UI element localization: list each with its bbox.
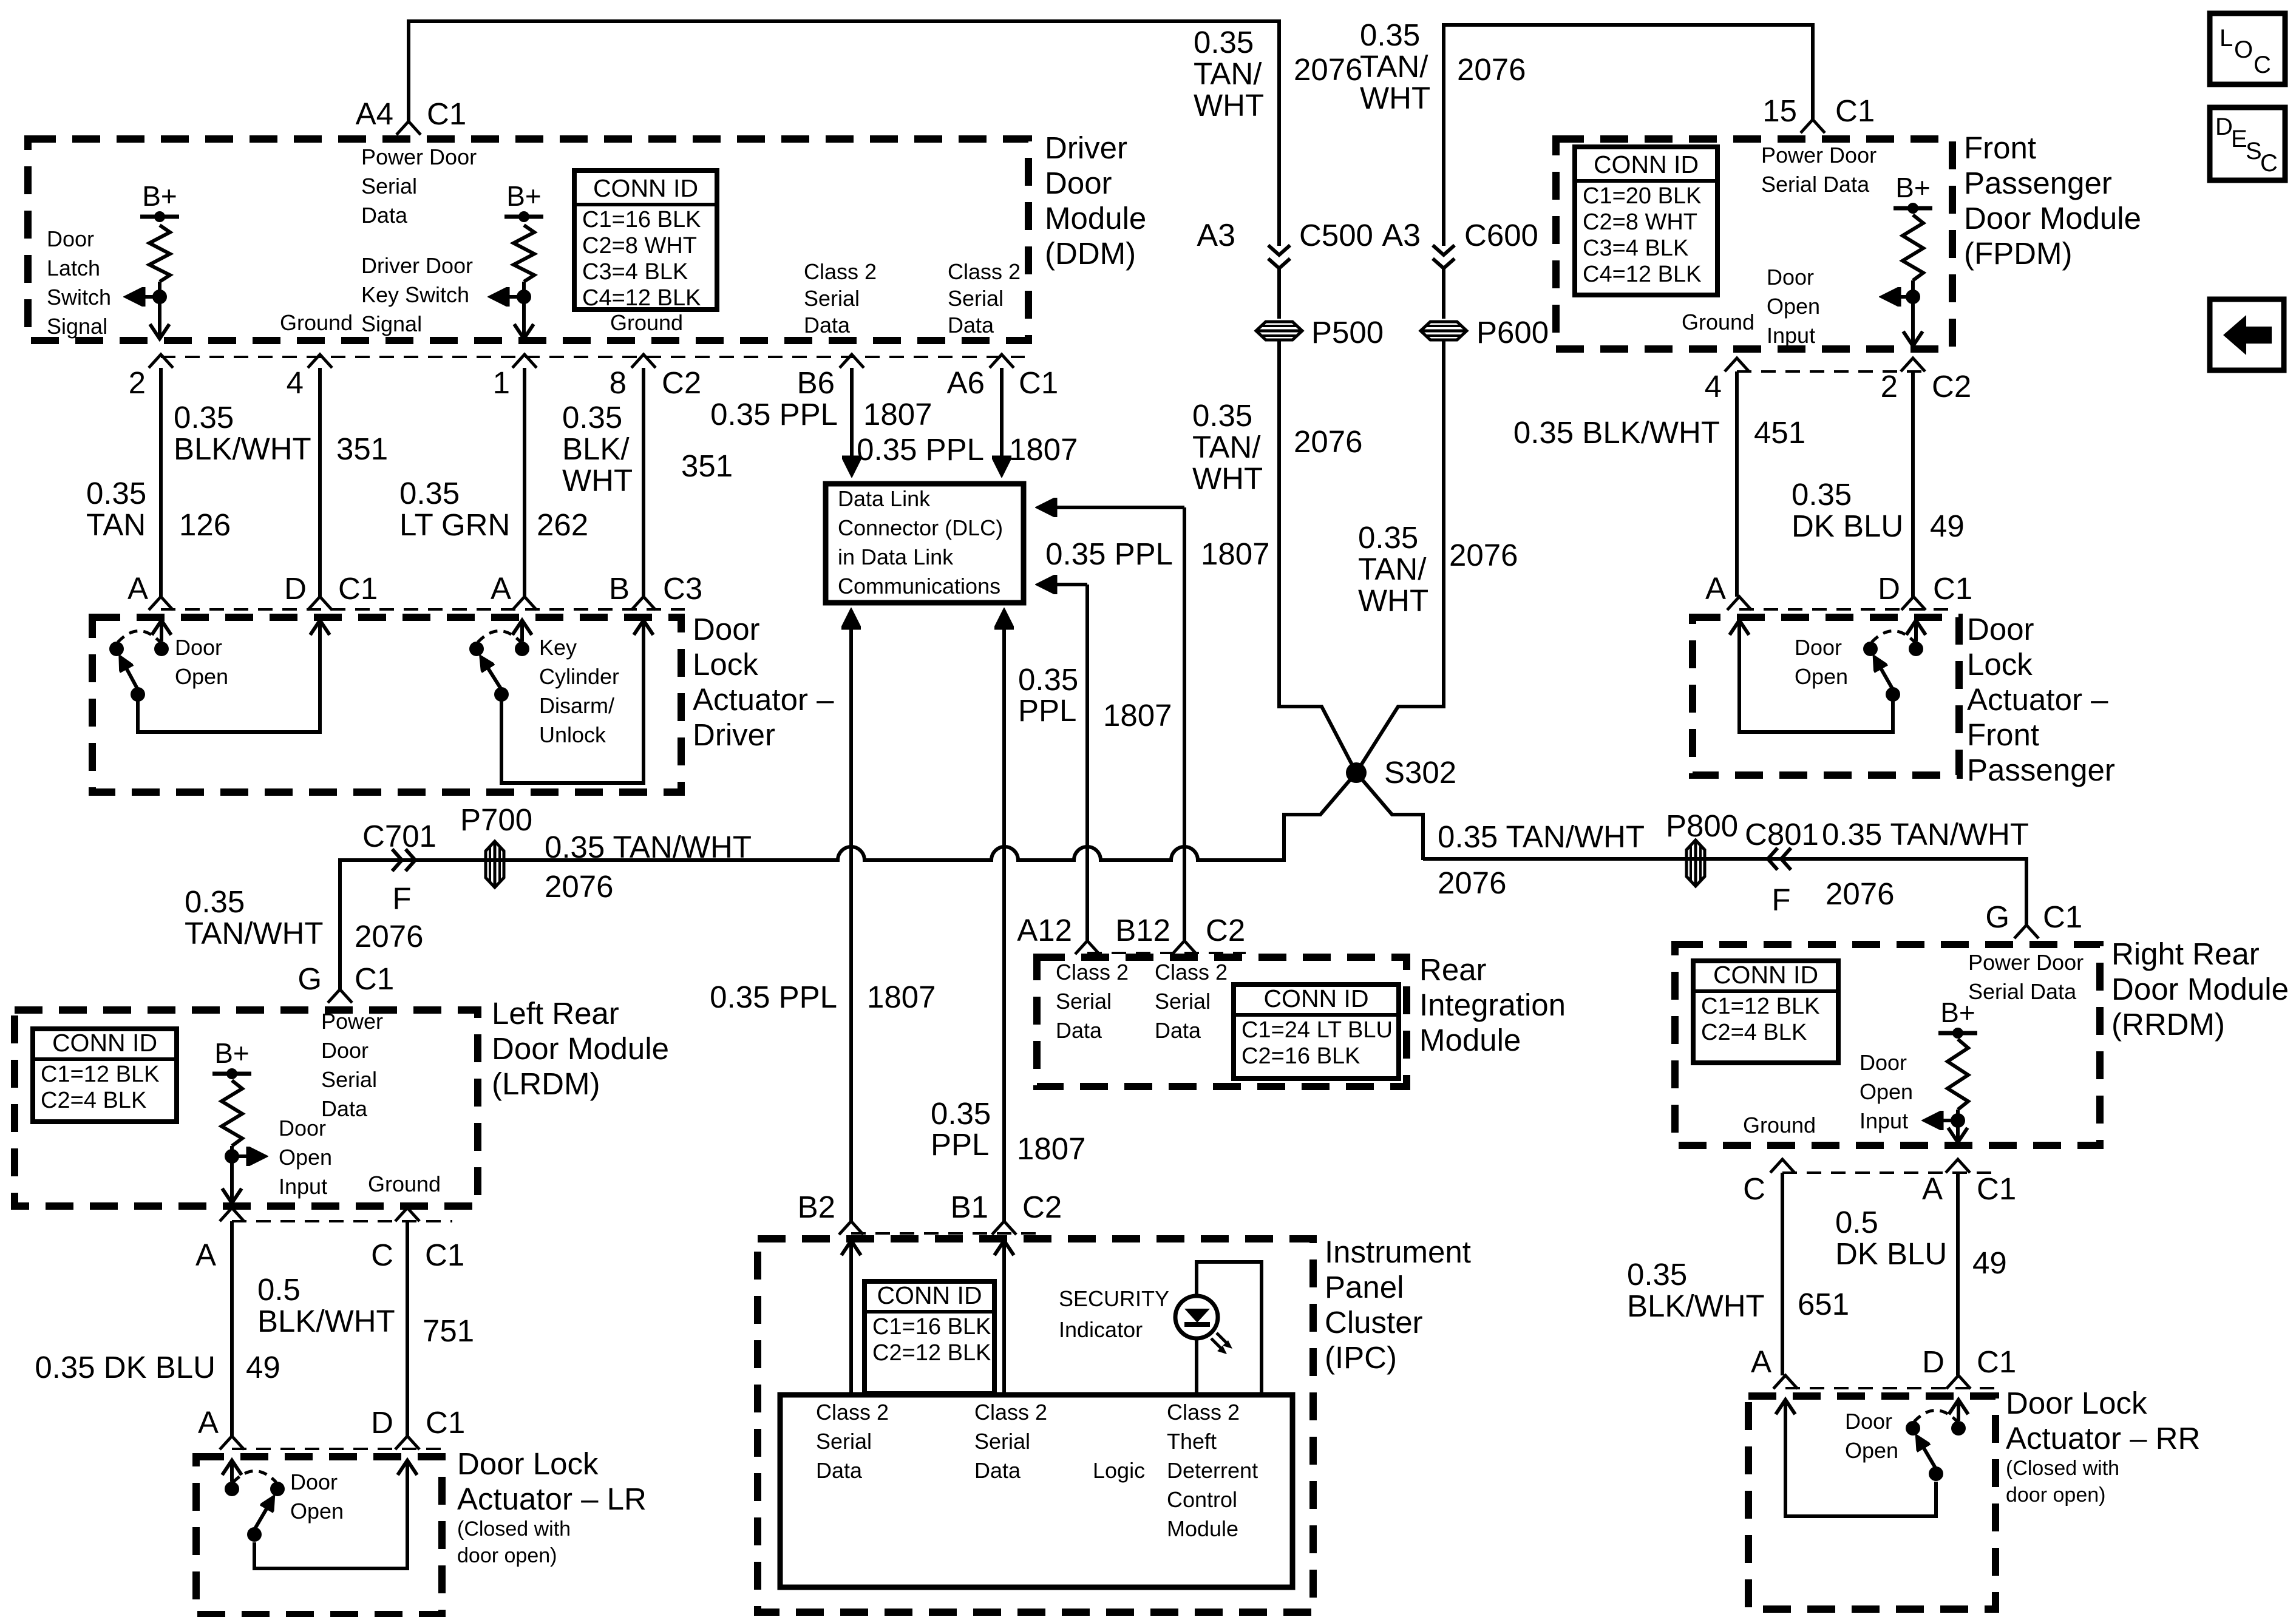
svg-text:CONN ID: CONN ID (1713, 961, 1818, 989)
svg-text:0.5: 0.5 (1835, 1205, 1878, 1239)
svg-text:751: 751 (423, 1314, 474, 1348)
module Front Passenger Door Module (FPDM) box (1556, 139, 1952, 349)
module Instrument Panel Cluster (IPC) box (758, 1239, 1313, 1612)
svg-text:Key: Key (539, 635, 577, 660)
svg-text:Actuator –: Actuator – (1967, 682, 2108, 717)
svg-text:WHT: WHT (1194, 88, 1264, 123)
svg-text:Lock: Lock (1967, 647, 2033, 682)
svg-text:C1=12 BLK: C1=12 BLK (41, 1062, 159, 1087)
arrow door open input (RRDM) (1927, 1119, 1958, 1122)
svg-text:BLK/: BLK/ (562, 432, 630, 466)
conn-id table IPC (864, 1281, 994, 1394)
svg-text:0.35: 0.35 (1360, 18, 1420, 52)
wire 1807 PPL B2 column (849, 631, 853, 1221)
svg-text:B1: B1 (951, 1190, 988, 1224)
wire 49 DK BLU (FPDM door open) (1911, 371, 1915, 597)
pin B6 (DDM) (840, 354, 864, 368)
svg-text:C600: C600 (1464, 218, 1538, 253)
svg-text:PPL: PPL (931, 1127, 989, 1162)
arrow to ground (LRDM) (230, 1156, 234, 1202)
arrow into DLC lower right (1807 PPL) (1041, 583, 1087, 586)
svg-text:15: 15 (1762, 93, 1797, 128)
svg-text:Power: Power (321, 1009, 383, 1034)
pin 4 (FPDM) (1725, 358, 1749, 371)
svg-text:Serial: Serial (974, 1429, 1030, 1454)
pin 4 (DDM) (308, 354, 332, 368)
pin 2 (FPDM) (1901, 358, 1925, 371)
svg-text:0.35: 0.35 (174, 400, 234, 435)
module Left Rear Door Module (LRDM) box (15, 1010, 478, 1206)
svg-text:0.35: 0.35 (399, 476, 460, 510)
arrow to ground (DDM left) (158, 297, 161, 337)
svg-text:A: A (127, 571, 148, 606)
svg-text:0.35 PPL: 0.35 PPL (857, 432, 984, 467)
svg-text:Open: Open (290, 1499, 344, 1524)
wire 49 DK BLU (LRDM) (230, 1221, 234, 1436)
svg-text:B2: B2 (798, 1190, 835, 1224)
svg-text:(IPC): (IPC) (1325, 1340, 1397, 1375)
legend box DESC (2210, 107, 2285, 180)
svg-text:C3=4 BLK: C3=4 BLK (1583, 236, 1688, 261)
svg-text:Door: Door (290, 1470, 338, 1494)
connector row RRDM (thin dashed) (1782, 1171, 1997, 1174)
svg-text:1807: 1807 (1017, 1131, 1085, 1166)
svg-text:S302: S302 (1384, 755, 1456, 790)
svg-text:Data: Data (1056, 1018, 1102, 1043)
arrow B2 into class2 block (849, 1242, 853, 1395)
legend box back-arrow (2210, 299, 2284, 370)
junction dot RRDM door open (1951, 1113, 1965, 1128)
svg-text:0.35: 0.35 (1194, 25, 1254, 59)
arrow to ground (RRDM) (1956, 1120, 1960, 1141)
conn-id table FPDM (1575, 147, 1717, 295)
svg-text:Passenger: Passenger (1967, 753, 2115, 787)
svg-text:Door Module: Door Module (2111, 972, 2289, 1006)
junction dot FPDM door open (1906, 290, 1920, 304)
svg-text:LT GRN: LT GRN (399, 507, 510, 542)
svg-text:C1: C1 (1977, 1171, 2016, 1206)
svg-text:C2: C2 (662, 365, 701, 400)
svg-text:C3: C3 (663, 571, 702, 606)
wire segment C600 to P600 (1442, 268, 1445, 319)
svg-text:CONN ID: CONN ID (593, 174, 698, 202)
svg-text:Panel: Panel (1325, 1270, 1404, 1304)
svg-text:Serial Data: Serial Data (1761, 172, 1870, 197)
svg-text:C2=16 BLK: C2=16 BLK (1241, 1043, 1360, 1069)
svg-text:C1: C1 (1977, 1344, 2016, 1379)
svg-text:2: 2 (129, 365, 146, 400)
svg-text:D: D (2215, 114, 2233, 140)
module Door Lock Actuator LR box (196, 1457, 442, 1615)
svg-text:(FPDM): (FPDM) (1964, 236, 2072, 271)
svg-text:0.35: 0.35 (1192, 398, 1252, 433)
svg-text:4: 4 (287, 365, 304, 400)
pin 2 (DDM) (149, 354, 173, 368)
svg-text:Door: Door (175, 635, 222, 660)
svg-text:Module: Module (1167, 1516, 1238, 1541)
svg-text:Connector (DLC): Connector (DLC) (838, 515, 1003, 540)
svg-text:Serial: Serial (1155, 989, 1211, 1014)
switch door open (LR) (225, 1482, 239, 1496)
svg-text:Class 2: Class 2 (816, 1400, 889, 1425)
svg-text:262: 262 (537, 507, 588, 542)
legend box LOC (2210, 13, 2285, 84)
svg-text:Instrument: Instrument (1325, 1235, 1471, 1269)
svg-text:C2: C2 (1206, 913, 1245, 947)
svg-text:G: G (297, 961, 322, 996)
svg-text:Open: Open (175, 664, 228, 689)
svg-text:Indicator: Indicator (1059, 1317, 1143, 1342)
svg-text:A: A (1705, 571, 1726, 606)
splice P500 (1256, 322, 1302, 340)
svg-text:Door: Door (1795, 635, 1842, 660)
wire 1807 PPL (A6 to DLC) (1000, 368, 1004, 472)
svg-text:P600: P600 (1476, 315, 1549, 350)
svg-text:L: L (2220, 25, 2233, 52)
arrow into DLC upper right (1807 PPL) (1041, 506, 1184, 509)
svg-text:A: A (198, 1405, 219, 1440)
module Door Lock Actuator Front Passenger box (1693, 617, 1959, 775)
svg-text:C1: C1 (1835, 93, 1875, 128)
svg-text:P700: P700 (460, 802, 532, 837)
switch door open (RR) (1906, 1421, 1920, 1436)
svg-text:Door Module: Door Module (1964, 201, 2141, 236)
pin G C1 (RRDM top) (2014, 925, 2039, 938)
wire resistor to junction (RRDM) (1956, 1110, 1960, 1120)
wire segment C500 to P500 (1277, 268, 1281, 319)
svg-text:Switch: Switch (47, 285, 111, 310)
svg-text:B: B (609, 571, 630, 606)
pin A (RR actuator) (1773, 1375, 1798, 1389)
wire 651 BLK/WHT (RRDM ground) (1781, 1173, 1784, 1375)
arrow into DLC bottom right (from IPC B1) (1002, 613, 1006, 631)
svg-text:SECURITY: SECURITY (1059, 1286, 1169, 1311)
wire resistor to ground (DDM right) (522, 282, 526, 297)
junction dot key switch signal (517, 290, 531, 304)
svg-text:Left Rear: Left Rear (492, 996, 619, 1031)
pin A6 (DDM) (990, 354, 1014, 368)
svg-text:Door: Door (1860, 1050, 1907, 1075)
svg-text:C1=16 BLK: C1=16 BLK (582, 207, 701, 232)
svg-text:Driver: Driver (1045, 131, 1127, 165)
arrow to pin D (FP door open contact) (1914, 622, 1918, 642)
svg-text:2076: 2076 (1438, 866, 1506, 900)
svg-text:Ground: Ground (368, 1171, 441, 1196)
wire P600 down to S302 jog (1284, 340, 1444, 860)
arrow door open input (LRDM) (232, 1154, 263, 1158)
svg-text:0.35: 0.35 (185, 884, 245, 919)
pin A (RRDM) (1946, 1159, 1970, 1173)
svg-text:Data Link: Data Link (838, 486, 931, 511)
module Right Rear Door Module (RRDM) box (1675, 944, 2100, 1145)
svg-text:0.35: 0.35 (562, 400, 622, 435)
svg-text:C500: C500 (1299, 218, 1373, 253)
wire P500 down to S302 jog (1279, 340, 1423, 860)
svg-text:0.35 PPL: 0.35 PPL (1045, 537, 1173, 571)
svg-text:D: D (1922, 1344, 1944, 1379)
wire main serial data bus 2076 TAN/WHT (340, 815, 1284, 989)
pin A (LRDM) (220, 1208, 244, 1221)
wire switch to pin D (LR) (254, 1462, 407, 1568)
svg-text:door open): door open) (457, 1544, 557, 1567)
pin D (RR actuator) (1946, 1375, 1971, 1389)
svg-text:451: 451 (1754, 415, 1805, 450)
svg-text:A6: A6 (947, 365, 985, 400)
connector pin 15 C1 (FPDM top) (1801, 120, 1825, 133)
svg-text:Door: Door (47, 226, 94, 251)
junction dot LRDM door open (225, 1149, 239, 1164)
svg-text:C3=4 BLK: C3=4 BLK (582, 259, 688, 285)
svg-text:Serial: Serial (321, 1067, 377, 1092)
svg-text:0.35 TAN/WHT: 0.35 TAN/WHT (545, 830, 752, 864)
arrow B1 into class2 block (1002, 1242, 1006, 1395)
svg-text:C1=20 BLK: C1=20 BLK (1583, 183, 1701, 209)
svg-text:4: 4 (1705, 369, 1722, 404)
svg-text:Data: Data (948, 313, 994, 337)
svg-text:CONN ID: CONN ID (877, 1281, 982, 1309)
svg-text:B+: B+ (214, 1037, 250, 1069)
resistor LRDM door open pull-up (222, 1080, 242, 1146)
pin C (LRDM) (395, 1208, 419, 1221)
svg-text:A12: A12 (1017, 913, 1072, 947)
svg-text:C1=12 BLK: C1=12 BLK (1701, 994, 1819, 1019)
svg-text:Open: Open (1767, 294, 1820, 319)
svg-text:0.35: 0.35 (1018, 662, 1078, 697)
svg-text:Ground: Ground (1743, 1113, 1816, 1137)
connector C500 in-line (1268, 245, 1290, 255)
svg-text:CONN ID: CONN ID (1263, 985, 1368, 1012)
switch key cylinder (driver) (469, 642, 484, 656)
svg-text:Door: Door (321, 1038, 369, 1063)
pin B (driver key cyl) (631, 597, 656, 610)
svg-text:A3: A3 (1197, 218, 1235, 253)
svg-text:651: 651 (1798, 1287, 1849, 1321)
pin A (driver key cyl) (512, 597, 537, 610)
module Rear Integration Module box (1037, 957, 1407, 1086)
svg-text:Module: Module (1045, 201, 1146, 236)
svg-text:Door: Door (693, 612, 760, 646)
svg-text:Right Rear: Right Rear (2111, 937, 2260, 971)
svg-text:BLK/WHT: BLK/WHT (174, 432, 311, 466)
svg-text:Front: Front (1964, 131, 2036, 165)
svg-text:1: 1 (493, 365, 510, 400)
svg-text:TAN/: TAN/ (1360, 49, 1428, 84)
svg-text:Ground: Ground (610, 310, 683, 335)
svg-text:C2=4 BLK: C2=4 BLK (1701, 1020, 1807, 1045)
svg-text:Data: Data (321, 1096, 368, 1121)
svg-text:C4=12 BLK: C4=12 BLK (1583, 262, 1701, 287)
svg-text:C4=12 BLK: C4=12 BLK (582, 285, 701, 311)
svg-text:Serial: Serial (361, 174, 417, 198)
svg-text:TAN/: TAN/ (1192, 430, 1261, 464)
svg-text:Door Module: Door Module (492, 1031, 669, 1066)
svg-text:49: 49 (1972, 1246, 2007, 1280)
svg-text:Module: Module (1419, 1023, 1521, 1057)
box theft deterrent logic block (780, 1395, 1292, 1587)
arrow door latch switch signal (129, 295, 160, 299)
svg-text:Power Door: Power Door (1761, 143, 1877, 168)
resistor FPDM door open pull-up (1903, 215, 1923, 280)
svg-text:Class 2: Class 2 (1167, 1400, 1240, 1425)
svg-text:Rear: Rear (1419, 952, 1487, 987)
svg-text:CONN ID: CONN ID (1594, 151, 1699, 178)
svg-text:Class 2: Class 2 (1056, 960, 1129, 985)
svg-text:P800: P800 (1666, 808, 1738, 843)
wire resistor to ground (DDM left) (158, 282, 161, 297)
svg-text:(Closed with: (Closed with (457, 1517, 571, 1541)
wire resistor to junction (FPDM) (1911, 280, 1915, 297)
connector C801 in-line (1781, 848, 1791, 870)
wire 1807 PPL B12 column (1183, 507, 1186, 941)
svg-text:CONN ID: CONN ID (52, 1029, 157, 1057)
svg-text:2: 2 (1881, 369, 1898, 404)
pin A (LR actuator) (220, 1436, 244, 1449)
connector row actuator front passenger (thin dashed) (1739, 608, 1956, 611)
svg-text:Door: Door (279, 1116, 326, 1141)
svg-text:Serial: Serial (816, 1429, 872, 1454)
svg-text:PPL: PPL (1018, 693, 1076, 728)
svg-text:Latch: Latch (47, 256, 100, 280)
svg-text:Class 2: Class 2 (948, 259, 1021, 284)
svg-text:C1: C1 (338, 571, 378, 606)
svg-text:O: O (2234, 36, 2253, 63)
pin B2 (IPC) (839, 1221, 863, 1235)
svg-text:49: 49 (246, 1350, 280, 1385)
svg-text:A3: A3 (1382, 218, 1421, 253)
svg-text:Door Lock: Door Lock (2006, 1386, 2147, 1420)
svg-text:Integration: Integration (1419, 988, 1566, 1022)
splice P700 (486, 841, 504, 887)
svg-text:0.35: 0.35 (1358, 520, 1418, 555)
svg-text:C1: C1 (425, 1238, 464, 1272)
wire 262 LT GRN (pin 1 down) (523, 368, 526, 597)
wire 1807 PPL (B6 to DLC) (850, 368, 854, 472)
junction dot door latch signal (152, 290, 167, 304)
svg-text:0.35 TAN/WHT: 0.35 TAN/WHT (1822, 817, 2029, 852)
wire 451 BLK/WHT (FPDM ground) (1735, 371, 1739, 597)
svg-text:Serial: Serial (948, 286, 1004, 311)
arrow door open input (FPDM) (1884, 295, 1913, 299)
svg-text:C1=16 BLK: C1=16 BLK (872, 1314, 991, 1340)
svg-text:Logic: Logic (1093, 1458, 1145, 1483)
pin A12 (RIM) (1075, 941, 1099, 954)
connector row LRDM (thin dashed) (232, 1220, 452, 1222)
svg-text:A: A (195, 1238, 216, 1272)
svg-text:B+: B+ (1940, 997, 1975, 1028)
connector C600 in-line (1433, 245, 1455, 255)
svg-text:(LRDM): (LRDM) (492, 1066, 600, 1101)
svg-text:Door Lock: Door Lock (457, 1446, 599, 1481)
svg-text:Actuator –: Actuator – (693, 682, 834, 717)
svg-text:2076: 2076 (1449, 538, 1518, 572)
wire 126 TAN (pin 2 down) (159, 368, 163, 597)
svg-text:C2=12 BLK: C2=12 BLK (872, 1340, 991, 1366)
pin B1 (IPC) (992, 1221, 1016, 1235)
svg-text:Class 2: Class 2 (1155, 960, 1228, 985)
svg-text:Actuator – LR: Actuator – LR (457, 1482, 647, 1516)
svg-text:D: D (1878, 571, 1900, 606)
pin C (RRDM) (1770, 1159, 1795, 1173)
svg-text:BLK/WHT: BLK/WHT (257, 1304, 395, 1338)
connector row actuator LR (thin dashed) (232, 1448, 449, 1450)
svg-text:Ground: Ground (280, 310, 353, 335)
svg-text:126: 126 (179, 507, 231, 542)
svg-text:Door: Door (1045, 166, 1112, 200)
svg-text:0.35: 0.35 (1627, 1257, 1687, 1292)
wire switch to pin A (FP) (1739, 622, 1893, 732)
svg-text:0.35: 0.35 (86, 476, 146, 510)
arrow to ground (FPDM) (1911, 297, 1915, 345)
wire 351 BLK/WHT (pin 4 down) (318, 368, 322, 597)
svg-text:Power Door: Power Door (1968, 950, 2084, 975)
svg-text:0.35 DK BLU: 0.35 DK BLU (35, 1350, 216, 1385)
svg-text:C1: C1 (355, 961, 394, 996)
arrow to pin A (LR door open contact) (230, 1462, 234, 1482)
svg-text:C1: C1 (1019, 365, 1058, 400)
wire 1807 PPL B1 column (1002, 631, 1006, 1221)
svg-text:Input: Input (1860, 1108, 1908, 1133)
svg-text:8: 8 (610, 365, 627, 400)
svg-text:TAN/: TAN/ (1194, 56, 1262, 91)
svg-text:49: 49 (1930, 509, 1965, 543)
svg-text:351: 351 (681, 449, 733, 483)
svg-text:0.35 PPL: 0.35 PPL (710, 980, 837, 1014)
svg-text:Data: Data (361, 203, 408, 228)
svg-text:C1: C1 (2043, 900, 2082, 934)
svg-text:0.35: 0.35 (931, 1096, 991, 1131)
svg-text:0.35 PPL: 0.35 PPL (710, 397, 838, 432)
svg-text:Driver: Driver (693, 717, 775, 752)
wire bus right of S302 to C801 (1423, 859, 2026, 925)
svg-text:Data: Data (804, 313, 851, 337)
svg-text:C1: C1 (1933, 571, 1972, 606)
svg-text:1807: 1807 (863, 397, 932, 432)
svg-text:BLK/WHT: BLK/WHT (1627, 1289, 1765, 1323)
svg-text:Open: Open (279, 1145, 332, 1170)
connector pin A4 C1 (DDM top) (396, 121, 421, 135)
connector row IPC (thin dashed) (851, 1232, 1039, 1235)
wire switch to pin D (driver) (138, 622, 320, 732)
svg-text:C: C (2254, 52, 2271, 78)
svg-text:B12: B12 (1115, 913, 1170, 947)
wire 751 BLK/WHT (LRDM ground) (406, 1221, 409, 1436)
arrow to pin A (key cylinder contact) (520, 622, 524, 642)
svg-text:0.35 TAN/WHT: 0.35 TAN/WHT (1438, 819, 1645, 854)
arrow to pin D (RR door open contact) (1957, 1401, 1960, 1421)
svg-text:S: S (2246, 138, 2262, 164)
conn-id table RIM (1234, 985, 1399, 1079)
pin A (FP actuator) (1727, 597, 1751, 610)
svg-text:DK BLU: DK BLU (1835, 1236, 1947, 1271)
pin D (LR actuator) (395, 1436, 419, 1449)
svg-text:C2=4 BLK: C2=4 BLK (41, 1088, 146, 1113)
svg-text:1807: 1807 (1201, 537, 1269, 571)
svg-text:door open): door open) (2006, 1483, 2105, 1507)
svg-text:Front: Front (1967, 717, 2039, 752)
connector row door lock actuator driver (thin dashed) (161, 608, 685, 611)
conn-id table LRDM (33, 1029, 177, 1122)
wire 2076 TAN/WHT from FPDM 15 to C600 (top run) (1444, 25, 1813, 246)
svg-text:C2: C2 (1022, 1190, 1062, 1224)
svg-text:Actuator – RR: Actuator – RR (2006, 1421, 2200, 1456)
pin 8 (DDM) (631, 354, 656, 368)
wire 2076 TAN/WHT from DDM A4 to C500 (top run) (409, 21, 1279, 246)
svg-text:Cylinder: Cylinder (539, 664, 619, 689)
svg-text:A4: A4 (356, 97, 393, 131)
svg-text:Power Door: Power Door (361, 144, 477, 169)
svg-text:B+: B+ (142, 180, 177, 212)
pin A (driver actuator left) (149, 597, 173, 610)
